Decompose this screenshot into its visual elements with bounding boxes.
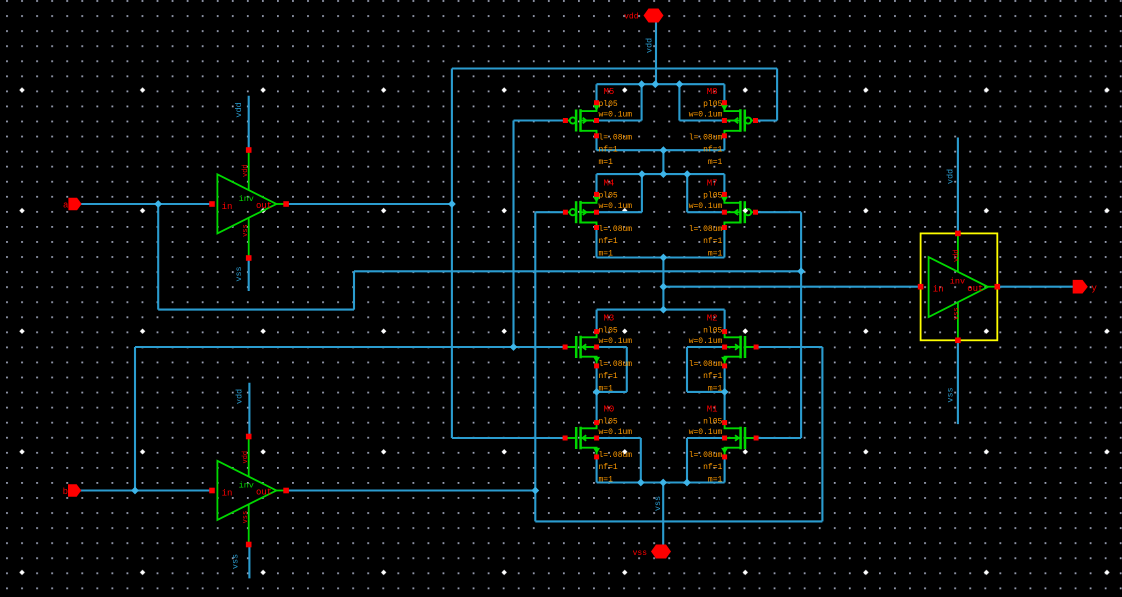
svg-text:vdd: vdd xyxy=(953,249,961,262)
svg-text:M8: M8 xyxy=(707,87,718,97)
svg-text:in: in xyxy=(933,285,944,295)
svg-text:w=0.1um: w=0.1um xyxy=(599,202,633,211)
svg-text:nl05: nl05 xyxy=(703,418,722,427)
svg-text:nl05: nl05 xyxy=(703,327,722,336)
svg-text:l=.08um: l=.08um xyxy=(599,225,633,234)
svg-text:l=.08um: l=.08um xyxy=(689,360,723,369)
svg-text:l=.08um: l=.08um xyxy=(599,360,633,369)
svg-text:pl05: pl05 xyxy=(703,100,722,109)
svg-text:b: b xyxy=(63,487,68,497)
svg-text:inv: inv xyxy=(239,194,254,204)
svg-text:pl05: pl05 xyxy=(703,192,722,201)
svg-text:m=1: m=1 xyxy=(599,476,614,485)
svg-text:m=1: m=1 xyxy=(599,250,614,259)
svg-text:a: a xyxy=(63,201,69,211)
svg-text:nf=1: nf=1 xyxy=(599,237,618,246)
svg-text:l=.08um: l=.08um xyxy=(689,134,723,143)
svg-text:vdd: vdd xyxy=(235,389,245,404)
svg-text:m=1: m=1 xyxy=(708,476,723,485)
svg-text:M5: M5 xyxy=(604,87,615,97)
svg-text:w=0.1um: w=0.1um xyxy=(689,202,723,211)
svg-text:M7: M7 xyxy=(707,179,718,189)
svg-text:M0: M0 xyxy=(604,405,615,415)
svg-text:out: out xyxy=(967,284,983,294)
svg-text:l=.08um: l=.08um xyxy=(599,451,633,460)
svg-text:nf=1: nf=1 xyxy=(599,463,618,472)
svg-text:M4: M4 xyxy=(604,179,615,189)
svg-text:m=1: m=1 xyxy=(708,250,723,259)
svg-text:M3: M3 xyxy=(604,314,615,324)
svg-text:l=.08um: l=.08um xyxy=(689,451,723,460)
svg-text:m=1: m=1 xyxy=(599,158,614,167)
svg-text:nf=1: nf=1 xyxy=(703,463,722,472)
svg-text:l=.08um: l=.08um xyxy=(599,134,633,143)
svg-text:y: y xyxy=(1091,283,1097,294)
svg-text:vdd: vdd xyxy=(234,102,244,117)
svg-text:m=1: m=1 xyxy=(599,385,614,394)
svg-text:w=0.1um: w=0.1um xyxy=(689,111,723,120)
svg-text:inv: inv xyxy=(239,481,254,491)
svg-text:nl05: nl05 xyxy=(599,327,618,336)
svg-text:l=.08um: l=.08um xyxy=(689,225,723,234)
svg-text:inv: inv xyxy=(950,277,965,287)
svg-text:vss: vss xyxy=(953,307,961,320)
svg-text:vss: vss xyxy=(242,511,250,524)
svg-text:vdd: vdd xyxy=(242,451,250,464)
svg-text:M1: M1 xyxy=(707,405,718,415)
svg-text:nf=1: nf=1 xyxy=(703,146,722,155)
svg-text:nf=1: nf=1 xyxy=(703,372,722,381)
svg-text:nf=1: nf=1 xyxy=(703,237,722,246)
svg-text:vss: vss xyxy=(234,266,244,281)
svg-text:nl05: nl05 xyxy=(599,418,618,427)
svg-text:in: in xyxy=(222,202,233,212)
svg-text:pl05: pl05 xyxy=(599,192,618,201)
svg-text:out: out xyxy=(256,201,272,211)
svg-text:vdd: vdd xyxy=(624,13,639,22)
svg-text:vss: vss xyxy=(231,554,241,569)
svg-text:vss: vss xyxy=(946,387,956,402)
svg-text:vss: vss xyxy=(242,224,250,237)
svg-text:m=1: m=1 xyxy=(708,158,723,167)
svg-text:nf=1: nf=1 xyxy=(599,146,618,155)
svg-text:w=0.1um: w=0.1um xyxy=(689,337,723,346)
svg-text:vss: vss xyxy=(633,549,648,558)
svg-text:vss: vss xyxy=(653,496,663,511)
svg-text:w=0.1um: w=0.1um xyxy=(689,428,723,437)
svg-text:vdd: vdd xyxy=(645,38,655,53)
svg-text:vdd: vdd xyxy=(242,164,250,177)
svg-text:w=0.1um: w=0.1um xyxy=(599,337,633,346)
svg-text:vdd: vdd xyxy=(946,169,956,184)
svg-text:M2: M2 xyxy=(707,314,718,324)
svg-text:w=0.1um: w=0.1um xyxy=(599,111,633,120)
svg-text:out: out xyxy=(256,488,272,498)
svg-text:in: in xyxy=(222,489,233,499)
svg-text:pl05: pl05 xyxy=(599,100,618,109)
svg-text:w=0.1um: w=0.1um xyxy=(599,428,633,437)
svg-text:m=1: m=1 xyxy=(708,385,723,394)
svg-text:nf=1: nf=1 xyxy=(599,372,618,381)
